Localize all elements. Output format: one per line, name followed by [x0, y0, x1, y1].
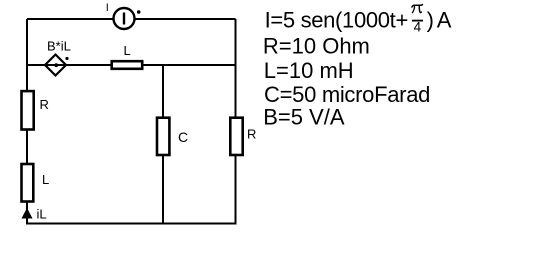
svg-text:A: A: [437, 8, 452, 33]
svg-text:L: L: [124, 43, 131, 58]
svg-text:4: 4: [414, 19, 422, 34]
svg-text:B*iL: B*iL: [47, 39, 71, 54]
svg-text:L=10 mH: L=10 mH: [264, 58, 354, 83]
svg-text:C: C: [178, 129, 188, 145]
svg-text:I: I: [106, 2, 109, 14]
svg-text:B=5 V/A: B=5 V/A: [263, 105, 345, 130]
svg-text:): ): [427, 8, 434, 33]
svg-text:R=10 Ohm: R=10 Ohm: [263, 34, 370, 59]
svg-text:R: R: [40, 97, 49, 112]
svg-text:C=50 microFarad: C=50 microFarad: [264, 82, 430, 107]
svg-text:I=5 sen(1000t+: I=5 sen(1000t+: [265, 8, 408, 33]
svg-text:L: L: [42, 172, 49, 187]
svg-text:R: R: [247, 127, 256, 142]
svg-text:iL: iL: [37, 207, 47, 222]
